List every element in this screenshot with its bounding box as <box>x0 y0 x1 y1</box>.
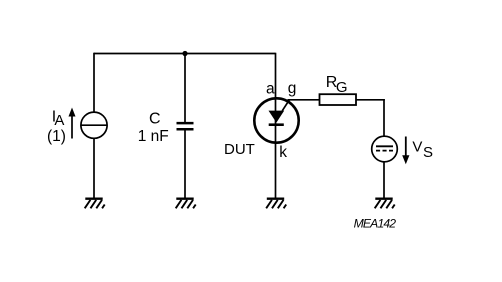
wire resistor to corner <box>356 99 385 101</box>
voltage source VS circle <box>372 136 398 162</box>
arrow IA direction <box>69 108 76 139</box>
label IA <box>52 108 65 129</box>
node junction dot <box>182 51 187 56</box>
voltage source VS dashed line <box>376 150 393 152</box>
ground GND2 <box>176 199 196 209</box>
label VS <box>412 138 433 161</box>
svg-text:g: g <box>288 80 297 97</box>
resistor RG body <box>320 94 357 105</box>
wire left branch upper <box>93 53 95 112</box>
voltage source VS solid line <box>376 145 393 147</box>
svg-text:a: a <box>266 81 275 98</box>
svg-text:G: G <box>336 79 348 96</box>
DUT cathode bar <box>269 123 284 126</box>
wire top bus <box>94 53 276 55</box>
current source U1 bar <box>81 124 107 126</box>
label RG <box>326 74 348 96</box>
capacitor C top plate <box>177 122 194 125</box>
ground GND4 <box>375 199 395 209</box>
DUT thyristor circle <box>254 98 298 142</box>
ground GND1 <box>85 199 105 209</box>
svg-text:(1): (1) <box>47 128 66 145</box>
svg-text:1 nF: 1 nF <box>138 128 169 145</box>
svg-text:DUT: DUT <box>224 141 255 158</box>
wire capacitor branch upper <box>184 54 186 123</box>
wire DUT branch (anode to cathode through circle) <box>275 53 277 199</box>
capacitor C bottom plate <box>177 128 194 131</box>
current source U1 circle <box>81 112 107 138</box>
ground GND3 <box>266 199 286 209</box>
svg-text:S: S <box>423 144 433 161</box>
wire capacitor branch lower <box>184 130 186 199</box>
svg-text:k: k <box>279 144 287 161</box>
wire left branch lower <box>93 138 95 199</box>
wire corner down to source <box>383 99 385 136</box>
wire source to ground <box>383 162 385 199</box>
wire gate to resistor <box>288 99 320 101</box>
svg-text:MEA142: MEA142 <box>354 216 397 230</box>
arrow VS direction <box>402 137 409 165</box>
svg-text:A: A <box>54 112 64 129</box>
svg-text:V: V <box>412 138 422 155</box>
DUT gate diagonal <box>282 100 289 111</box>
DUT thyristor triangle <box>269 111 285 123</box>
svg-text:C: C <box>149 111 161 128</box>
